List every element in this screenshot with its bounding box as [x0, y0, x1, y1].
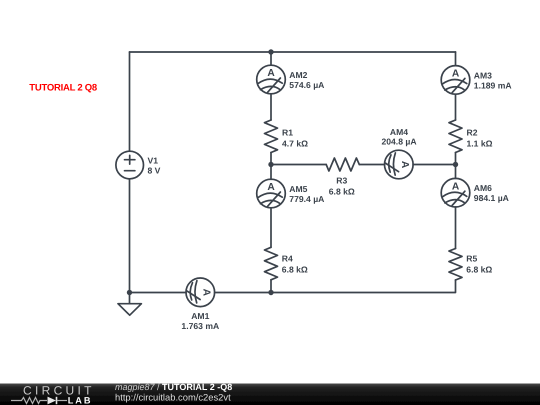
wire R1 to mid node [270, 153, 272, 165]
node dot mid right [453, 162, 458, 167]
svg-text:A: A [201, 289, 212, 297]
CircuitLab logo diode triangle [48, 397, 57, 405]
svg-text:6.8 kΩ: 6.8 kΩ [466, 264, 492, 274]
resistor R1 [265, 120, 309, 153]
svg-text:R4: R4 [282, 253, 293, 263]
node dot bottom mid [268, 290, 273, 295]
ammeter AM1 [181, 278, 219, 331]
wire AM2 to R1 [270, 94, 272, 120]
CircuitLab logo symbol row: wire resistor diode [11, 397, 67, 404]
wire right mid node to AM6 [455, 165, 457, 179]
wire right column top [455, 52, 457, 66]
wire AM6 to R5 [455, 207, 457, 249]
svg-text:6.8 kΩ: 6.8 kΩ [329, 187, 355, 197]
wire mid rail left (node to R3) [271, 164, 326, 166]
svg-text:AM3: AM3 [474, 70, 492, 80]
voltage source V1 [116, 151, 161, 179]
svg-text:AM1: AM1 [191, 311, 209, 321]
wire R4 to bottom node [270, 280, 272, 293]
svg-text:6.8 kΩ: 6.8 kΩ [282, 264, 308, 274]
resistor R5 [449, 249, 492, 281]
wire AM4 to right mid node [413, 164, 455, 166]
node dot top [268, 49, 273, 54]
svg-text:574.6 µA: 574.6 µA [289, 80, 324, 90]
svg-text:http://circuitlab.com/c2es2vt: http://circuitlab.com/c2es2vt [115, 392, 231, 403]
svg-text:AM6: AM6 [474, 183, 492, 193]
svg-text:V1: V1 [148, 156, 159, 166]
wire bottom rail (node to AM1 right) [215, 292, 271, 294]
svg-text:1.189 mA: 1.189 mA [474, 80, 512, 90]
svg-text:R5: R5 [466, 253, 477, 263]
svg-text:204.8 µA: 204.8 µA [381, 137, 416, 147]
svg-text:A: A [452, 69, 460, 80]
svg-text:A: A [399, 161, 410, 169]
node dot bottom left [127, 290, 132, 295]
ammeter AM4 [381, 127, 416, 179]
svg-text:AM5: AM5 [289, 184, 307, 194]
wire top rail [130, 51, 456, 53]
ammeter AM5 [257, 179, 325, 208]
wire R3 to AM4 [359, 164, 384, 166]
svg-text:4.7 kΩ: 4.7 kΩ [282, 139, 308, 149]
svg-text:AM2: AM2 [289, 70, 307, 80]
svg-text:A: A [452, 181, 460, 192]
wire mid column: node to AM5 [270, 165, 272, 180]
node dot mid left [268, 162, 273, 167]
svg-text:R2: R2 [467, 128, 478, 138]
ground [118, 293, 141, 316]
svg-text:A: A [267, 182, 275, 193]
svg-text:R1: R1 [282, 128, 293, 138]
svg-text:TUTORIAL 2 Q8: TUTORIAL 2 Q8 [29, 82, 97, 93]
svg-text:779.4 µA: 779.4 µA [289, 194, 324, 204]
ammeter AM3 [441, 66, 511, 95]
wire left column bottom (V1 to bottom rail) [129, 179, 131, 293]
resistor R2 [449, 120, 493, 153]
svg-text:1.763 mA: 1.763 mA [181, 321, 219, 331]
svg-text:LAB: LAB [68, 395, 93, 405]
wire R5 to bottom right corner [271, 280, 456, 293]
svg-text:AM4: AM4 [390, 127, 408, 137]
ammeter AM2 [257, 65, 325, 94]
resistor R4 [265, 247, 308, 279]
wire AM1 to ground node [130, 292, 187, 294]
ammeter AM6 [441, 178, 509, 207]
resistor R3 [326, 158, 359, 197]
svg-text:1.1 kΩ: 1.1 kΩ [467, 139, 493, 149]
wire left column top (top rail to V1) [129, 52, 131, 151]
svg-text:8 V: 8 V [148, 166, 161, 176]
wire AM3 to R2 [455, 94, 457, 120]
wire mid column: node to AM2 [270, 52, 272, 65]
wire AM5 to R4 [270, 208, 272, 248]
svg-text:A: A [267, 68, 275, 79]
wire R2 to right mid node [455, 153, 457, 165]
svg-text:R3: R3 [336, 176, 347, 186]
svg-text:984.1 µA: 984.1 µA [474, 193, 509, 203]
